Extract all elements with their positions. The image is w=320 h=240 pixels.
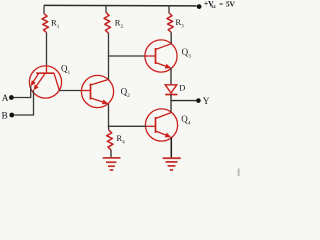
wire Q4 emitter to ground — [170, 137, 172, 157]
wire Q2 emitter down to node — [108, 104, 110, 127]
resistor R2 — [104, 12, 110, 33]
wire R3 top lead — [168, 6, 170, 13]
wire R4 bottom lead — [110, 150, 112, 157]
wire branch to Q3 base — [108, 55, 146, 57]
wire R2 top lead — [105, 5, 107, 12]
wire R1 bottom lead — [46, 33, 48, 67]
transistor Q1 (multi-emitter input) — [29, 66, 61, 98]
node Vcc terminal dot — [197, 4, 202, 9]
wire R2 bottom lead to Q2 collector — [108, 33, 110, 79]
resistor R3 — [167, 13, 173, 32]
node B terminal dot — [9, 113, 14, 118]
node A terminal dot — [9, 95, 14, 100]
svg-text:A: A — [2, 94, 9, 104]
wire R3 bottom lead to Q3 collector — [170, 32, 172, 43]
resistor R1 — [42, 14, 48, 33]
wire Q1 collector to Q2 base — [59, 90, 82, 92]
diode D — [165, 85, 177, 95]
svg-text:B: B — [2, 112, 8, 122]
wire node to Q4 base — [108, 125, 146, 127]
ground under Q4 — [163, 158, 181, 170]
wire R4 top lead — [108, 126, 110, 130]
transistor Q3 — [145, 40, 177, 72]
ground under R4 — [103, 158, 121, 170]
transistor Q4 — [145, 109, 177, 141]
svg-text:D: D — [179, 83, 185, 92]
wire diode to Q4 collector / Y node — [170, 95, 172, 113]
wire Vcc rail — [44, 4, 197, 7]
node Y terminal dot — [196, 98, 201, 103]
resistor R4 — [107, 130, 113, 150]
wire Y output — [171, 100, 196, 102]
svg-text:Y: Y — [203, 97, 210, 107]
wire emitter2 to input B — [14, 90, 33, 115]
wire Q3 emitter to diode — [170, 68, 172, 85]
faint edge mark — [238, 169, 240, 177]
transistor Q2 — [81, 75, 113, 107]
wire R1 top lead — [43, 5, 45, 13]
wire emitter1 to input A — [14, 86, 31, 98]
